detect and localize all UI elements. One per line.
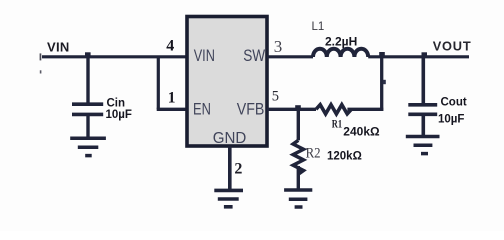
- svg-text:R2: R2: [306, 145, 321, 161]
- svg-text:R1: R1: [332, 116, 342, 130]
- svg-text:Cout: Cout: [441, 97, 467, 109]
- svg-text:SW: SW: [243, 47, 265, 65]
- svg-text:1: 1: [168, 89, 176, 106]
- svg-text:5: 5: [272, 89, 279, 105]
- svg-text:VFB: VFB: [237, 101, 265, 119]
- svg-text:L1: L1: [312, 21, 325, 33]
- wire feedback vertical from VOUT node: [380, 57, 383, 111]
- inductor L1: [313, 49, 368, 57]
- ground Cin: [70, 138, 106, 155]
- svg-text:VIN: VIN: [47, 39, 70, 54]
- wire L1 to VOUT: [368, 55, 469, 58]
- ground Cout: [406, 137, 440, 154]
- node junction VOUT/Cout: [422, 52, 428, 57]
- svg-text:120kΩ: 120kΩ: [327, 150, 362, 162]
- wire Cout to ground: [421, 114, 425, 135]
- svg-text:Cin: Cin: [107, 98, 126, 110]
- svg-text:10µF: 10µF: [106, 109, 132, 121]
- ground U1 pin 2: [214, 190, 243, 206]
- wire R1 to feedback node: [347, 108, 383, 111]
- svg-text:EN: EN: [193, 101, 211, 119]
- op-amp U1 IC body: [187, 17, 267, 147]
- wire EN branch horizontal: [157, 108, 187, 111]
- node junction VFB/R2: [295, 105, 301, 110]
- wire SW to inductor: [267, 55, 313, 58]
- wire stub artifact left edge: [40, 53, 42, 60]
- resistor R1: [316, 105, 351, 114]
- node junction L1/R1: [379, 52, 385, 57]
- wire EN branch vertical: [157, 57, 160, 110]
- capacitor Cout: [408, 105, 437, 115]
- svg-text:240kΩ: 240kΩ: [343, 124, 380, 138]
- wire R2 branch vertical: [297, 109, 300, 140]
- resistor R2: [293, 140, 303, 174]
- svg-text:3: 3: [274, 37, 283, 56]
- svg-text:VIN: VIN: [194, 47, 215, 65]
- capacitor Cin: [72, 104, 103, 114]
- node junction VIN/Cin: [85, 52, 91, 57]
- wire Cin to ground: [86, 114, 89, 136]
- node tick on feedback wire: [383, 80, 386, 84]
- svg-text:4: 4: [166, 38, 174, 55]
- svg-text:VOUT: VOUT: [433, 39, 472, 54]
- wire GND pin 2: [228, 146, 232, 190]
- wire Cin branch: [86, 57, 89, 103]
- svg-text:GND: GND: [213, 130, 247, 147]
- svg-text:10µF: 10µF: [438, 114, 464, 126]
- wire Cout branch: [421, 57, 425, 104]
- wire R2 to ground: [297, 166, 300, 190]
- wire VFB to R1: [267, 108, 316, 111]
- svg-text:2: 2: [234, 160, 242, 177]
- svg-text:2.2µH: 2.2µH: [325, 35, 357, 49]
- wire VIN rail: [42, 55, 187, 58]
- ground R2: [284, 190, 312, 207]
